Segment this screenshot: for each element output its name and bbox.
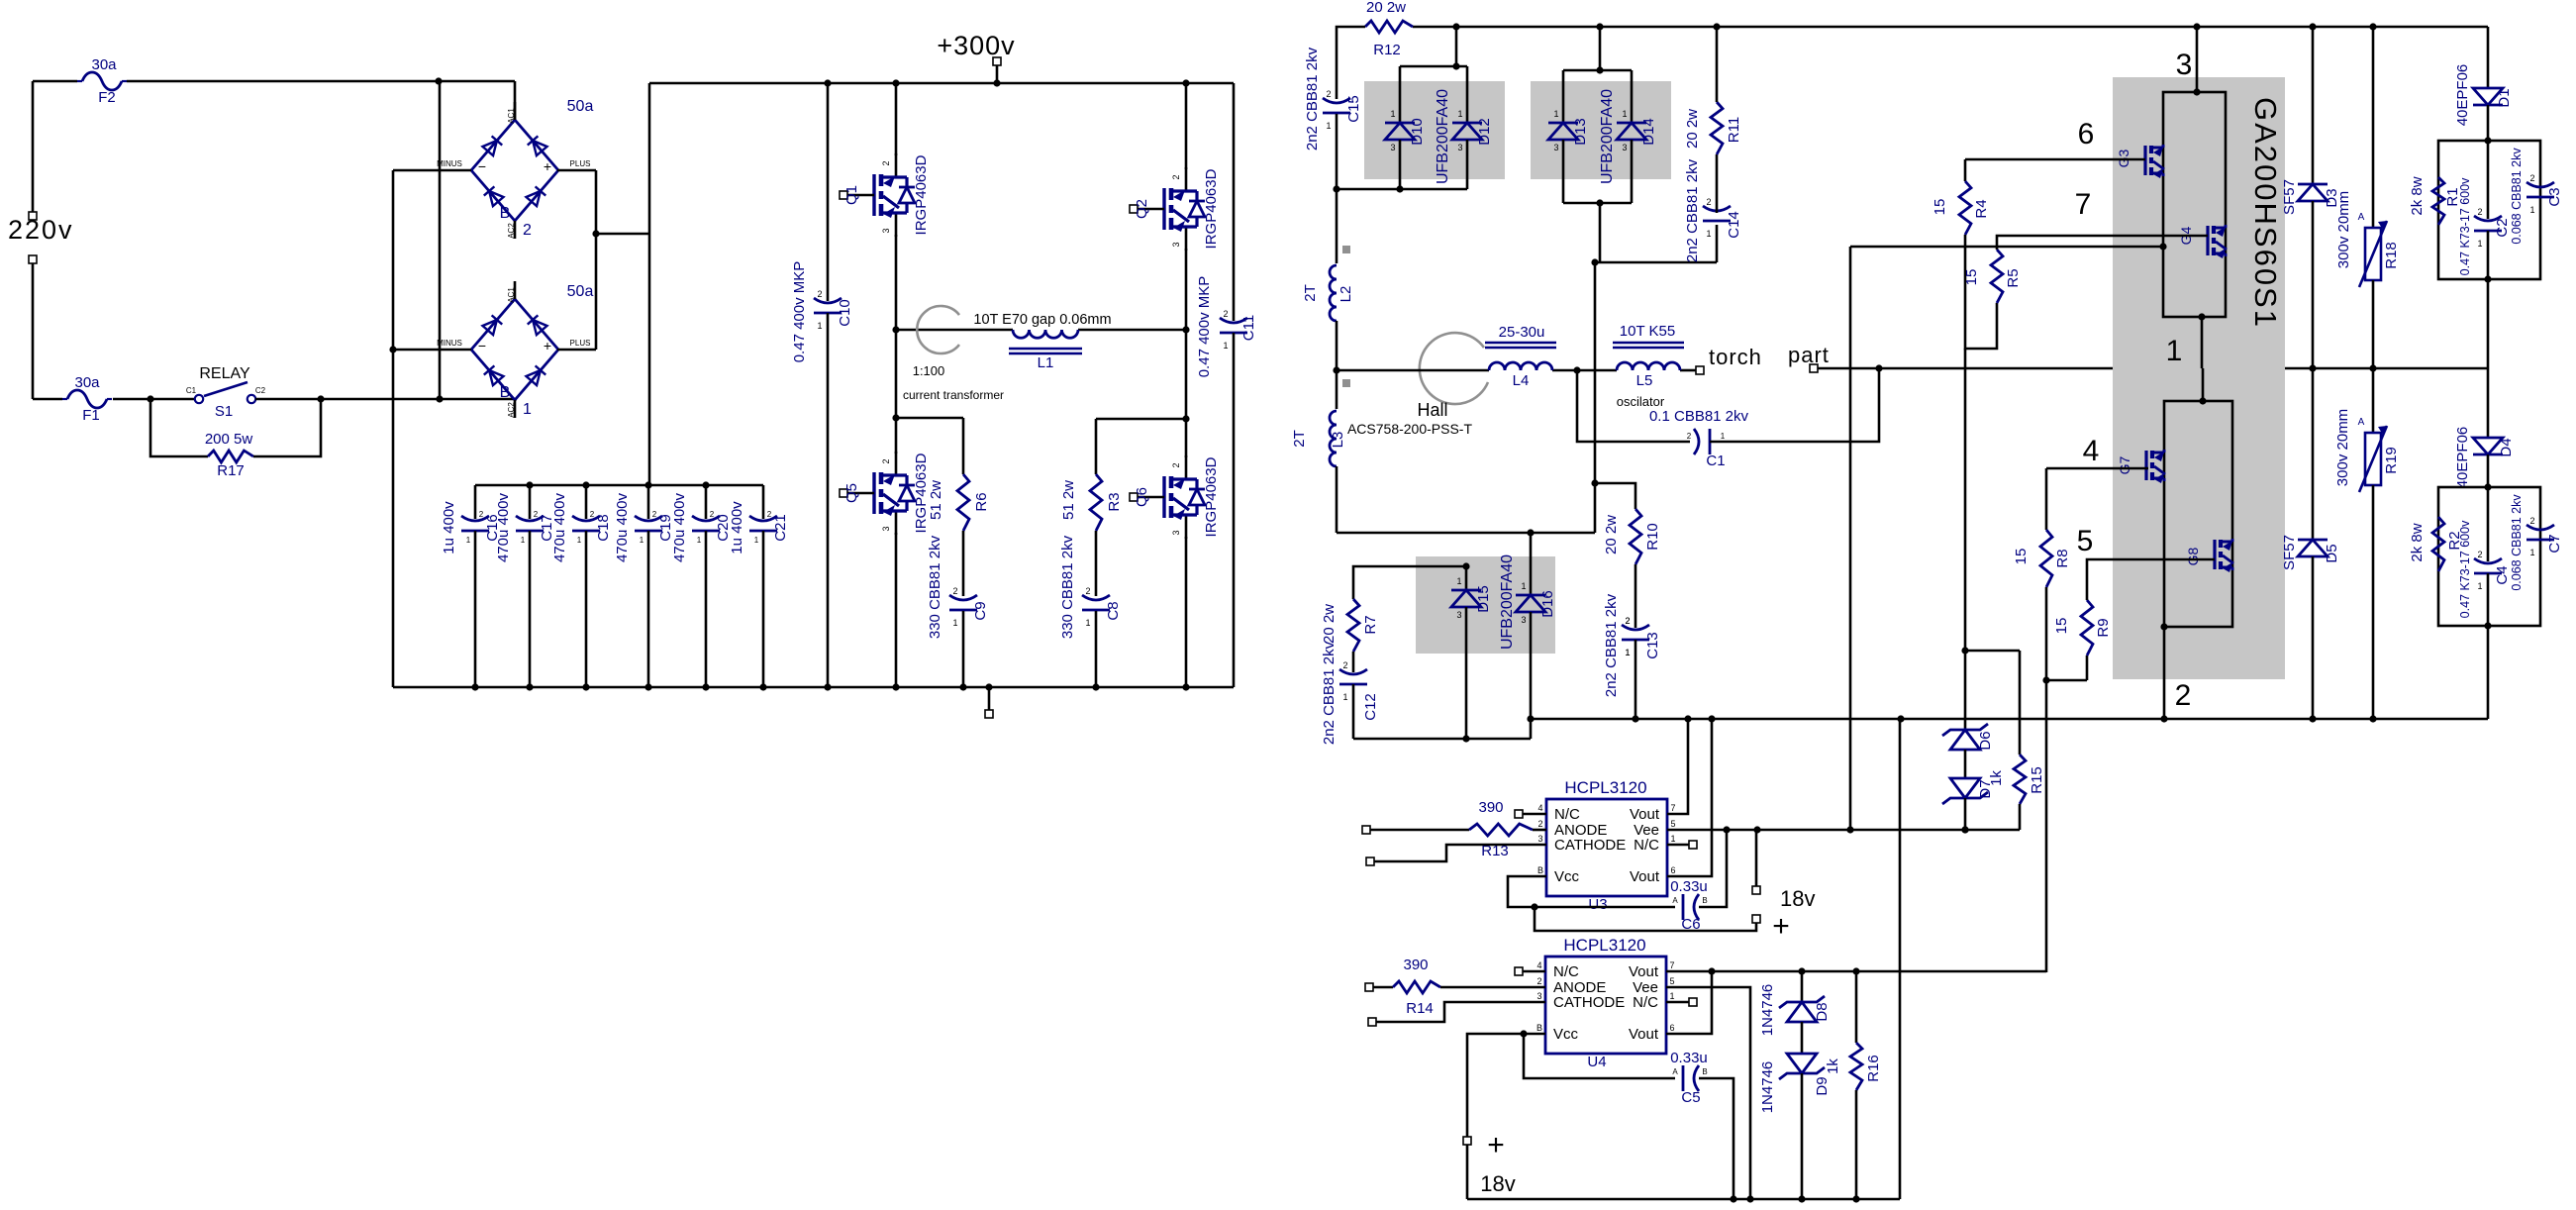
svg-text:B: B xyxy=(1702,896,1707,905)
svg-text:10T E70 gap 0.06mm: 10T E70 gap 0.06mm xyxy=(973,312,1111,328)
svg-text:1: 1 xyxy=(1553,109,1558,119)
svg-text:C2: C2 xyxy=(2494,218,2511,237)
svg-text:1N4746: 1N4746 xyxy=(1759,984,1776,1037)
svg-text:AC1: AC1 xyxy=(507,287,516,303)
svg-text:A: A xyxy=(2358,417,2365,428)
svg-text:PLUS: PLUS xyxy=(570,159,591,168)
svg-text:R18: R18 xyxy=(2383,242,2400,269)
svg-text:N/C: N/C xyxy=(1633,994,1658,1011)
svg-text:1: 1 xyxy=(577,536,582,545)
svg-text:0.47 K73-17 600v: 0.47 K73-17 600v xyxy=(2458,177,2472,275)
svg-text:0.33u: 0.33u xyxy=(1670,878,1708,895)
svg-text:20 2w: 20 2w xyxy=(1603,515,1620,555)
svg-text:15: 15 xyxy=(1932,199,1948,216)
svg-text:1: 1 xyxy=(2477,239,2482,249)
svg-text:Q2: Q2 xyxy=(1134,199,1150,219)
svg-text:10T K55: 10T K55 xyxy=(1620,323,1675,340)
svg-text:SF57: SF57 xyxy=(2281,179,2298,215)
svg-text:2: 2 xyxy=(534,510,539,519)
svg-text:2: 2 xyxy=(1342,660,1347,670)
svg-text:3: 3 xyxy=(1536,991,1541,1001)
svg-text:330 CBB81 2kv: 330 CBB81 2kv xyxy=(927,535,943,639)
svg-text:470u 400v: 470u 400v xyxy=(551,492,568,562)
svg-text:0.1 CBB81 2kv: 0.1 CBB81 2kv xyxy=(1649,408,1749,425)
svg-text:D13: D13 xyxy=(1572,118,1589,146)
svg-text:R3: R3 xyxy=(1106,492,1123,511)
svg-text:D10: D10 xyxy=(1409,118,1426,146)
svg-text:3: 3 xyxy=(1553,143,1558,152)
svg-text:R10: R10 xyxy=(1644,523,1661,551)
svg-text:CATHODE: CATHODE xyxy=(1554,837,1626,854)
svg-text:1: 1 xyxy=(2529,548,2534,557)
svg-text:5: 5 xyxy=(1669,976,1674,986)
svg-text:2: 2 xyxy=(2477,550,2482,559)
svg-text:300v 20mm: 300v 20mm xyxy=(2335,191,2352,268)
svg-text:C21: C21 xyxy=(772,514,789,542)
svg-text:1: 1 xyxy=(2166,335,2183,367)
svg-text:C13: C13 xyxy=(1644,632,1661,659)
svg-text:1:100: 1:100 xyxy=(913,363,945,378)
svg-text:HCPL3120: HCPL3120 xyxy=(1564,778,1646,797)
svg-text:3: 3 xyxy=(1171,530,1181,535)
svg-text:B: B xyxy=(1536,1023,1542,1033)
svg-text:R4: R4 xyxy=(1973,199,1990,218)
svg-text:7: 7 xyxy=(1669,960,1674,970)
svg-text:3: 3 xyxy=(1390,143,1395,152)
svg-text:2: 2 xyxy=(1085,586,1090,596)
svg-text:oscilator: oscilator xyxy=(1617,394,1665,409)
svg-text:part: part xyxy=(1788,343,1830,367)
svg-text:2: 2 xyxy=(1687,432,1692,441)
svg-text:2: 2 xyxy=(1625,616,1630,626)
svg-text:AC1: AC1 xyxy=(507,108,516,124)
svg-text:1: 1 xyxy=(1390,109,1395,119)
svg-text:R11: R11 xyxy=(1726,117,1742,143)
svg-text:50a: 50a xyxy=(567,283,594,300)
svg-text:220v: 220v xyxy=(8,215,74,245)
svg-text:D14: D14 xyxy=(1640,118,1657,146)
svg-text:L4: L4 xyxy=(1513,372,1530,389)
svg-text:2n2 CBB81 2kv: 2n2 CBB81 2kv xyxy=(1603,593,1620,697)
svg-text:3: 3 xyxy=(1457,143,1462,152)
svg-text:Hall: Hall xyxy=(1417,400,1447,420)
svg-text:current transformer: current transformer xyxy=(903,388,1004,402)
svg-text:AC2: AC2 xyxy=(507,402,516,418)
svg-text:1: 1 xyxy=(1342,692,1347,702)
svg-text:S1: S1 xyxy=(215,403,233,420)
svg-text:2: 2 xyxy=(652,510,657,519)
svg-text:5: 5 xyxy=(1670,819,1675,829)
svg-text:1: 1 xyxy=(1670,834,1675,844)
svg-text:C11: C11 xyxy=(1240,315,1257,341)
svg-text:D1: D1 xyxy=(2496,88,2513,107)
svg-text:IRGP4063D: IRGP4063D xyxy=(913,154,930,235)
svg-text:G8: G8 xyxy=(2185,547,2201,565)
svg-text:20 2w: 20 2w xyxy=(1684,109,1701,149)
svg-text:R19: R19 xyxy=(2383,447,2400,474)
svg-text:51 2w: 51 2w xyxy=(928,480,944,520)
svg-text:1: 1 xyxy=(697,536,702,545)
svg-text:2k 8w: 2k 8w xyxy=(2409,523,2426,561)
svg-text:C18: C18 xyxy=(595,514,612,542)
svg-text:470u 400v: 470u 400v xyxy=(614,492,631,562)
svg-text:1: 1 xyxy=(754,536,759,545)
svg-text:15: 15 xyxy=(2013,549,2030,565)
svg-text:50a: 50a xyxy=(567,98,594,115)
svg-text:Vcc: Vcc xyxy=(1553,1026,1579,1043)
svg-text:Vout: Vout xyxy=(1629,963,1659,980)
svg-text:RELAY: RELAY xyxy=(199,365,250,382)
svg-text:1: 1 xyxy=(1456,576,1461,586)
svg-text:C9: C9 xyxy=(972,601,989,620)
svg-text:3: 3 xyxy=(881,526,891,531)
svg-text:D5: D5 xyxy=(2324,544,2340,562)
svg-text:R8: R8 xyxy=(2054,549,2071,567)
svg-text:R14: R14 xyxy=(1406,1000,1434,1017)
svg-text:B: B xyxy=(1537,865,1543,875)
svg-text:40EPF06: 40EPF06 xyxy=(2454,427,2471,489)
svg-text:470u 400v: 470u 400v xyxy=(671,492,688,562)
svg-text:1k: 1k xyxy=(1825,1059,1841,1074)
svg-text:0.47 K73-17 600v: 0.47 K73-17 600v xyxy=(2458,520,2472,618)
svg-text:Q6: Q6 xyxy=(1134,487,1150,507)
svg-text:C10: C10 xyxy=(837,299,853,327)
svg-text:1: 1 xyxy=(1625,648,1630,657)
svg-text:2: 2 xyxy=(710,510,715,519)
svg-text:+: + xyxy=(544,158,551,174)
svg-text:N/C: N/C xyxy=(1634,837,1659,854)
svg-text:−: − xyxy=(478,338,486,353)
svg-text:0.068 CBB81 2kv: 0.068 CBB81 2kv xyxy=(2510,148,2524,245)
svg-text:0.47 400v MKP: 0.47 400v MKP xyxy=(791,261,808,363)
svg-text:300v 20mm: 300v 20mm xyxy=(2334,409,2351,486)
svg-text:GA200HS60S1: GA200HS60S1 xyxy=(2248,97,2283,329)
svg-text:1: 1 xyxy=(1521,581,1526,591)
svg-text:2: 2 xyxy=(881,160,891,165)
svg-text:Vout: Vout xyxy=(1630,868,1660,885)
svg-text:R15: R15 xyxy=(2029,766,2045,794)
svg-text:1: 1 xyxy=(1457,109,1462,119)
svg-text:2: 2 xyxy=(1536,976,1541,986)
svg-text:15: 15 xyxy=(2053,618,2070,635)
svg-text:4: 4 xyxy=(2083,435,2100,467)
svg-text:Vout: Vout xyxy=(1629,1026,1659,1043)
svg-text:4: 4 xyxy=(1536,960,1541,970)
svg-text:30a: 30a xyxy=(91,56,117,73)
svg-text:IRGP4063D: IRGP4063D xyxy=(1203,456,1220,537)
svg-text:L1: L1 xyxy=(1038,354,1054,371)
svg-text:C14: C14 xyxy=(1726,211,1742,239)
svg-text:R9: R9 xyxy=(2095,618,2112,637)
svg-text:L2: L2 xyxy=(1338,286,1354,303)
svg-text:R12: R12 xyxy=(1373,42,1401,58)
svg-text:2: 2 xyxy=(881,458,891,463)
svg-text:7: 7 xyxy=(2075,188,2092,221)
svg-text:L3: L3 xyxy=(1330,432,1346,449)
svg-text:1: 1 xyxy=(1706,229,1711,239)
svg-text:Q5: Q5 xyxy=(843,483,860,503)
svg-text:A: A xyxy=(1672,1067,1678,1076)
svg-text:G7: G7 xyxy=(2117,455,2132,474)
svg-text:torch: torch xyxy=(1709,345,1762,369)
svg-text:HCPL3120: HCPL3120 xyxy=(1563,936,1645,955)
svg-text:D9: D9 xyxy=(1814,1076,1831,1095)
svg-text:30a: 30a xyxy=(74,374,100,391)
svg-text:0.33u: 0.33u xyxy=(1670,1050,1708,1066)
svg-text:C7: C7 xyxy=(2546,534,2563,553)
svg-text:B: B xyxy=(500,384,511,401)
svg-text:A: A xyxy=(2358,212,2365,223)
svg-text:390: 390 xyxy=(1478,799,1503,816)
svg-text:2T: 2T xyxy=(1302,284,1319,302)
svg-text:2: 2 xyxy=(523,222,532,239)
svg-text:390: 390 xyxy=(1403,957,1428,973)
svg-text:2: 2 xyxy=(767,510,772,519)
svg-text:200 5w: 200 5w xyxy=(205,431,253,448)
svg-text:7: 7 xyxy=(1670,803,1675,813)
svg-text:1: 1 xyxy=(1721,432,1726,441)
svg-text:0.47 400v MKP: 0.47 400v MKP xyxy=(1196,276,1213,378)
svg-text:3: 3 xyxy=(1537,834,1542,844)
svg-text:51 2w: 51 2w xyxy=(1060,480,1077,520)
svg-text:C2: C2 xyxy=(255,386,266,395)
svg-text:ACS758-200-PSS-T: ACS758-200-PSS-T xyxy=(1347,421,1473,437)
svg-text:2: 2 xyxy=(952,586,957,596)
svg-text:3: 3 xyxy=(1521,615,1526,625)
svg-text:5: 5 xyxy=(2077,525,2094,557)
svg-text:CATHODE: CATHODE xyxy=(1553,994,1625,1011)
svg-text:R7: R7 xyxy=(1362,615,1379,634)
svg-text:SF57: SF57 xyxy=(2281,535,2298,570)
svg-text:Q1: Q1 xyxy=(843,185,860,205)
svg-text:1k: 1k xyxy=(1988,770,2005,786)
svg-text:18v: 18v xyxy=(1780,886,1815,911)
svg-text:2T: 2T xyxy=(1291,430,1308,448)
svg-text:15: 15 xyxy=(1963,269,1980,286)
svg-text:UFB200FA40: UFB200FA40 xyxy=(1599,89,1616,184)
svg-text:2n2 CBB81 2kv: 2n2 CBB81 2kv xyxy=(1304,47,1321,151)
svg-text:+: + xyxy=(1772,910,1790,943)
svg-text:1: 1 xyxy=(952,618,957,628)
svg-text:C3: C3 xyxy=(2546,187,2563,206)
svg-text:F2: F2 xyxy=(98,89,116,106)
svg-text:2: 2 xyxy=(2175,679,2192,712)
svg-text:3: 3 xyxy=(1622,143,1627,152)
svg-text:20 2w: 20 2w xyxy=(1366,0,1406,16)
svg-text:B: B xyxy=(1702,1067,1707,1076)
svg-text:R5: R5 xyxy=(2005,268,2022,287)
svg-text:18v: 18v xyxy=(1480,1171,1515,1196)
svg-text:R16: R16 xyxy=(1865,1055,1882,1082)
svg-text:+: + xyxy=(1487,1129,1505,1161)
svg-text:D15: D15 xyxy=(1475,585,1492,613)
svg-text:+: + xyxy=(544,338,551,353)
svg-text:C15: C15 xyxy=(1345,95,1362,123)
svg-text:U3: U3 xyxy=(1588,896,1607,913)
svg-text:Vout: Vout xyxy=(1630,806,1660,823)
svg-text:U4: U4 xyxy=(1587,1054,1606,1070)
svg-text:1: 1 xyxy=(523,401,532,418)
svg-text:C1: C1 xyxy=(186,386,197,395)
svg-text:2: 2 xyxy=(2529,173,2534,183)
svg-text:B: B xyxy=(500,205,511,222)
svg-text:R17: R17 xyxy=(217,462,245,479)
svg-text:C5: C5 xyxy=(1681,1089,1700,1106)
svg-text:1: 1 xyxy=(1326,121,1331,131)
svg-text:IRGP4063D: IRGP4063D xyxy=(1203,168,1220,249)
svg-text:1: 1 xyxy=(466,536,471,545)
svg-text:3: 3 xyxy=(1171,242,1181,247)
svg-text:C1: C1 xyxy=(1706,453,1725,469)
svg-text:C8: C8 xyxy=(1105,601,1122,620)
svg-text:N/C: N/C xyxy=(1553,963,1579,980)
svg-text:2: 2 xyxy=(1326,89,1331,99)
svg-text:C4: C4 xyxy=(2494,565,2511,584)
svg-text:2: 2 xyxy=(479,510,484,519)
svg-text:2k 8w: 2k 8w xyxy=(2409,176,2426,215)
svg-text:Vcc: Vcc xyxy=(1554,868,1580,885)
svg-text:UFB200FA40: UFB200FA40 xyxy=(1499,555,1516,650)
svg-text:2: 2 xyxy=(2529,516,2534,526)
svg-text:1: 1 xyxy=(1622,109,1627,119)
svg-text:4: 4 xyxy=(1537,803,1542,813)
svg-text:1: 1 xyxy=(817,321,822,331)
svg-text:1: 1 xyxy=(2529,205,2534,215)
svg-text:1: 1 xyxy=(2477,581,2482,591)
svg-text:−: − xyxy=(478,158,486,174)
svg-text:1: 1 xyxy=(521,536,526,545)
svg-text:1: 1 xyxy=(640,536,644,545)
svg-text:A: A xyxy=(1672,896,1678,905)
svg-text:330 CBB81 2kv: 330 CBB81 2kv xyxy=(1059,535,1076,639)
svg-text:2n2 CBB81 2kv: 2n2 CBB81 2kv xyxy=(1684,158,1701,262)
svg-text:6: 6 xyxy=(2078,118,2095,151)
svg-text:20 2w: 20 2w xyxy=(1321,604,1338,644)
svg-text:2: 2 xyxy=(1706,197,1711,207)
svg-text:2: 2 xyxy=(2477,207,2482,217)
svg-text:2: 2 xyxy=(1171,174,1181,179)
svg-text:PLUS: PLUS xyxy=(570,339,591,348)
svg-text:R6: R6 xyxy=(973,492,990,511)
svg-text:40EPF06: 40EPF06 xyxy=(2454,64,2471,127)
svg-text:C12: C12 xyxy=(1362,693,1379,721)
svg-text:MINUS: MINUS xyxy=(437,159,462,168)
svg-text:D8: D8 xyxy=(1814,1002,1831,1021)
svg-text:D6: D6 xyxy=(1977,731,1994,750)
svg-text:D4: D4 xyxy=(2498,438,2515,456)
svg-text:F1: F1 xyxy=(82,407,100,424)
svg-text:1u 400v: 1u 400v xyxy=(729,501,745,555)
svg-text:D12: D12 xyxy=(1476,118,1493,146)
svg-text:25-30u: 25-30u xyxy=(1499,324,1545,341)
svg-text:1: 1 xyxy=(1223,341,1228,351)
svg-text:1N4746: 1N4746 xyxy=(1759,1061,1776,1114)
svg-text:1: 1 xyxy=(1085,618,1090,628)
svg-text:470u 400v: 470u 400v xyxy=(495,492,512,562)
svg-text:0.068 CBB81 2kv: 0.068 CBB81 2kv xyxy=(2510,494,2524,591)
svg-text:1u 400v: 1u 400v xyxy=(441,501,457,555)
svg-text:2: 2 xyxy=(1537,819,1542,829)
svg-text:6: 6 xyxy=(1669,1023,1674,1033)
svg-text:3: 3 xyxy=(1456,610,1461,620)
svg-text:UFB200FA40: UFB200FA40 xyxy=(1435,89,1451,184)
svg-text:6: 6 xyxy=(1670,865,1675,875)
svg-text:2: 2 xyxy=(590,510,595,519)
svg-text:3: 3 xyxy=(881,228,891,233)
svg-text:1: 1 xyxy=(1669,991,1674,1001)
svg-text:AC2: AC2 xyxy=(507,223,516,239)
svg-text:N/C: N/C xyxy=(1554,806,1580,823)
svg-text:+300v: +300v xyxy=(937,31,1015,60)
svg-text:L5: L5 xyxy=(1636,372,1653,389)
svg-text:2: 2 xyxy=(1223,309,1228,319)
svg-text:D16: D16 xyxy=(1539,590,1556,618)
svg-text:MINUS: MINUS xyxy=(437,339,462,348)
svg-text:2: 2 xyxy=(1171,462,1181,467)
svg-text:3: 3 xyxy=(2176,49,2193,81)
svg-text:2n2 CBB81 2kv: 2n2 CBB81 2kv xyxy=(1321,641,1338,745)
svg-text:2: 2 xyxy=(817,289,822,299)
